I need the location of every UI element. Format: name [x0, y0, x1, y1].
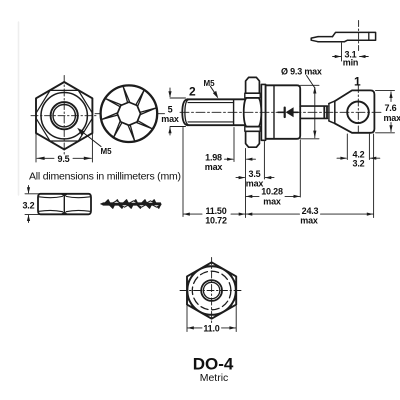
lock washer W1 inner octagon — [117, 102, 140, 125]
hex H1 side view top cap — [246, 77, 260, 93]
flat terminal centerline — [358, 21, 360, 51]
dimension 7.6 max — [376, 90, 395, 132]
lock washer W1 teeth — [102, 87, 156, 141]
nut N1 hexagon outline — [36, 82, 92, 149]
lock washer W1 side view — [101, 200, 161, 209]
svg-text:5: 5 — [168, 105, 173, 115]
bottom hex stud circles — [201, 280, 222, 301]
svg-text:10.72: 10.72 — [205, 216, 227, 226]
label M5 leader (nut) — [81, 131, 102, 147]
scan artifact faint line — [18, 22, 20, 195]
terminal lug T1 hole — [347, 102, 369, 124]
terminal lug T1 outline — [335, 90, 375, 132]
svg-text:3.2: 3.2 — [353, 159, 365, 169]
svg-text:max: max — [263, 197, 281, 207]
nut N1 side view outline — [38, 194, 91, 215]
bottom hex view centerlines — [180, 258, 244, 324]
hex H1 middle barrel — [244, 98, 262, 127]
nut N1 side view chamfer arcs — [39, 196, 90, 211]
svg-text:10.28: 10.28 — [261, 187, 283, 197]
svg-text:1: 1 — [354, 75, 361, 89]
dimension Ø9.3: body extension lines — [301, 85, 320, 139]
dimension 11.0 — [187, 306, 236, 332]
dimension 24.3 max line — [246, 213, 300, 215]
crimp marks — [324, 104, 329, 121]
svg-text:2: 2 — [189, 85, 196, 99]
dimension 4.2/3.2 extension lines — [347, 134, 369, 160]
svg-text:3.5: 3.5 — [249, 169, 261, 179]
dimension 4.2/3.2 arrows — [337, 157, 346, 159]
clamp — [329, 101, 335, 123]
svg-text:24.3: 24.3 — [302, 206, 319, 216]
main drawing centerline — [180, 111, 382, 113]
svg-text:M5: M5 — [204, 79, 216, 88]
svg-text:M5: M5 — [101, 147, 113, 156]
nut N1 side view facet line — [63, 194, 65, 214]
flange ring — [261, 84, 265, 140]
svg-text:DO-4: DO-4 — [193, 355, 234, 374]
dimension 3.1 min — [341, 43, 343, 61]
svg-text:Ø 9.3 max: Ø 9.3 max — [281, 67, 322, 77]
nut N1 front view: centerlines — [31, 76, 98, 156]
label M5 leader (stud) — [211, 87, 217, 96]
bottom dimension extension lines — [183, 128, 374, 218]
dimension 11.50/10.72 line — [183, 213, 202, 215]
bottom hex dashed body circle — [192, 271, 231, 310]
svg-text:3.2: 3.2 — [23, 201, 35, 211]
bottom hex chamfer chords — [187, 266, 236, 315]
nut N1 chamfer chords — [36, 90, 92, 141]
dimension 3.2 — [25, 186, 43, 223]
svg-text:max: max — [300, 216, 318, 226]
lock washer W1 front: centerline — [95, 113, 101, 115]
hex H1 lower waist — [245, 127, 260, 132]
nut N1 hole circles — [51, 102, 78, 129]
svg-text:1.98: 1.98 — [205, 153, 222, 163]
nut N1 side notches — [61, 194, 68, 197]
hex H1 bottom cap — [246, 131, 260, 147]
dimension 9.5 extension lines — [36, 134, 92, 162]
neck lead — [300, 106, 327, 118]
svg-text:max: max — [161, 114, 179, 124]
diode symbol D1 — [278, 111, 284, 113]
svg-text:Metric: Metric — [200, 372, 229, 384]
svg-text:11.50: 11.50 — [205, 206, 226, 216]
svg-text:min: min — [343, 58, 358, 68]
terminal lug T1 centerline vertical — [357, 86, 359, 136]
svg-text:max: max — [205, 162, 223, 172]
stud S1 thread lines — [188, 99, 234, 125]
svg-text:All dimensions in millimeters: All dimensions in millimeters (mm) — [29, 171, 181, 183]
dimension 3.5 max arrows — [236, 177, 245, 179]
lock washer W1 outer circle — [101, 85, 158, 142]
body B1 outline — [266, 85, 301, 139]
body B1 inner line — [273, 85, 275, 139]
nut N1 chamfer circle — [41, 93, 87, 139]
bottom hex view hexagon — [187, 262, 236, 318]
svg-text:max: max — [384, 113, 400, 123]
dimension 9.5 line and arrows — [37, 157, 91, 159]
hex H1 upper waist — [245, 93, 260, 98]
dimension Ø9.3 leader — [307, 76, 315, 88]
svg-text:9.5: 9.5 — [58, 154, 70, 164]
flat terminal top view — [311, 32, 375, 41]
bottom hex chamfer circle — [188, 267, 236, 315]
dimension 1.98 max arrows — [225, 158, 234, 160]
dimension 10.28 max line — [246, 195, 259, 197]
svg-text:11.0: 11.0 — [203, 324, 219, 334]
stud S1 outline — [182, 99, 244, 125]
svg-text:7.6: 7.6 — [385, 103, 397, 113]
dimension 5 max — [170, 88, 186, 135]
